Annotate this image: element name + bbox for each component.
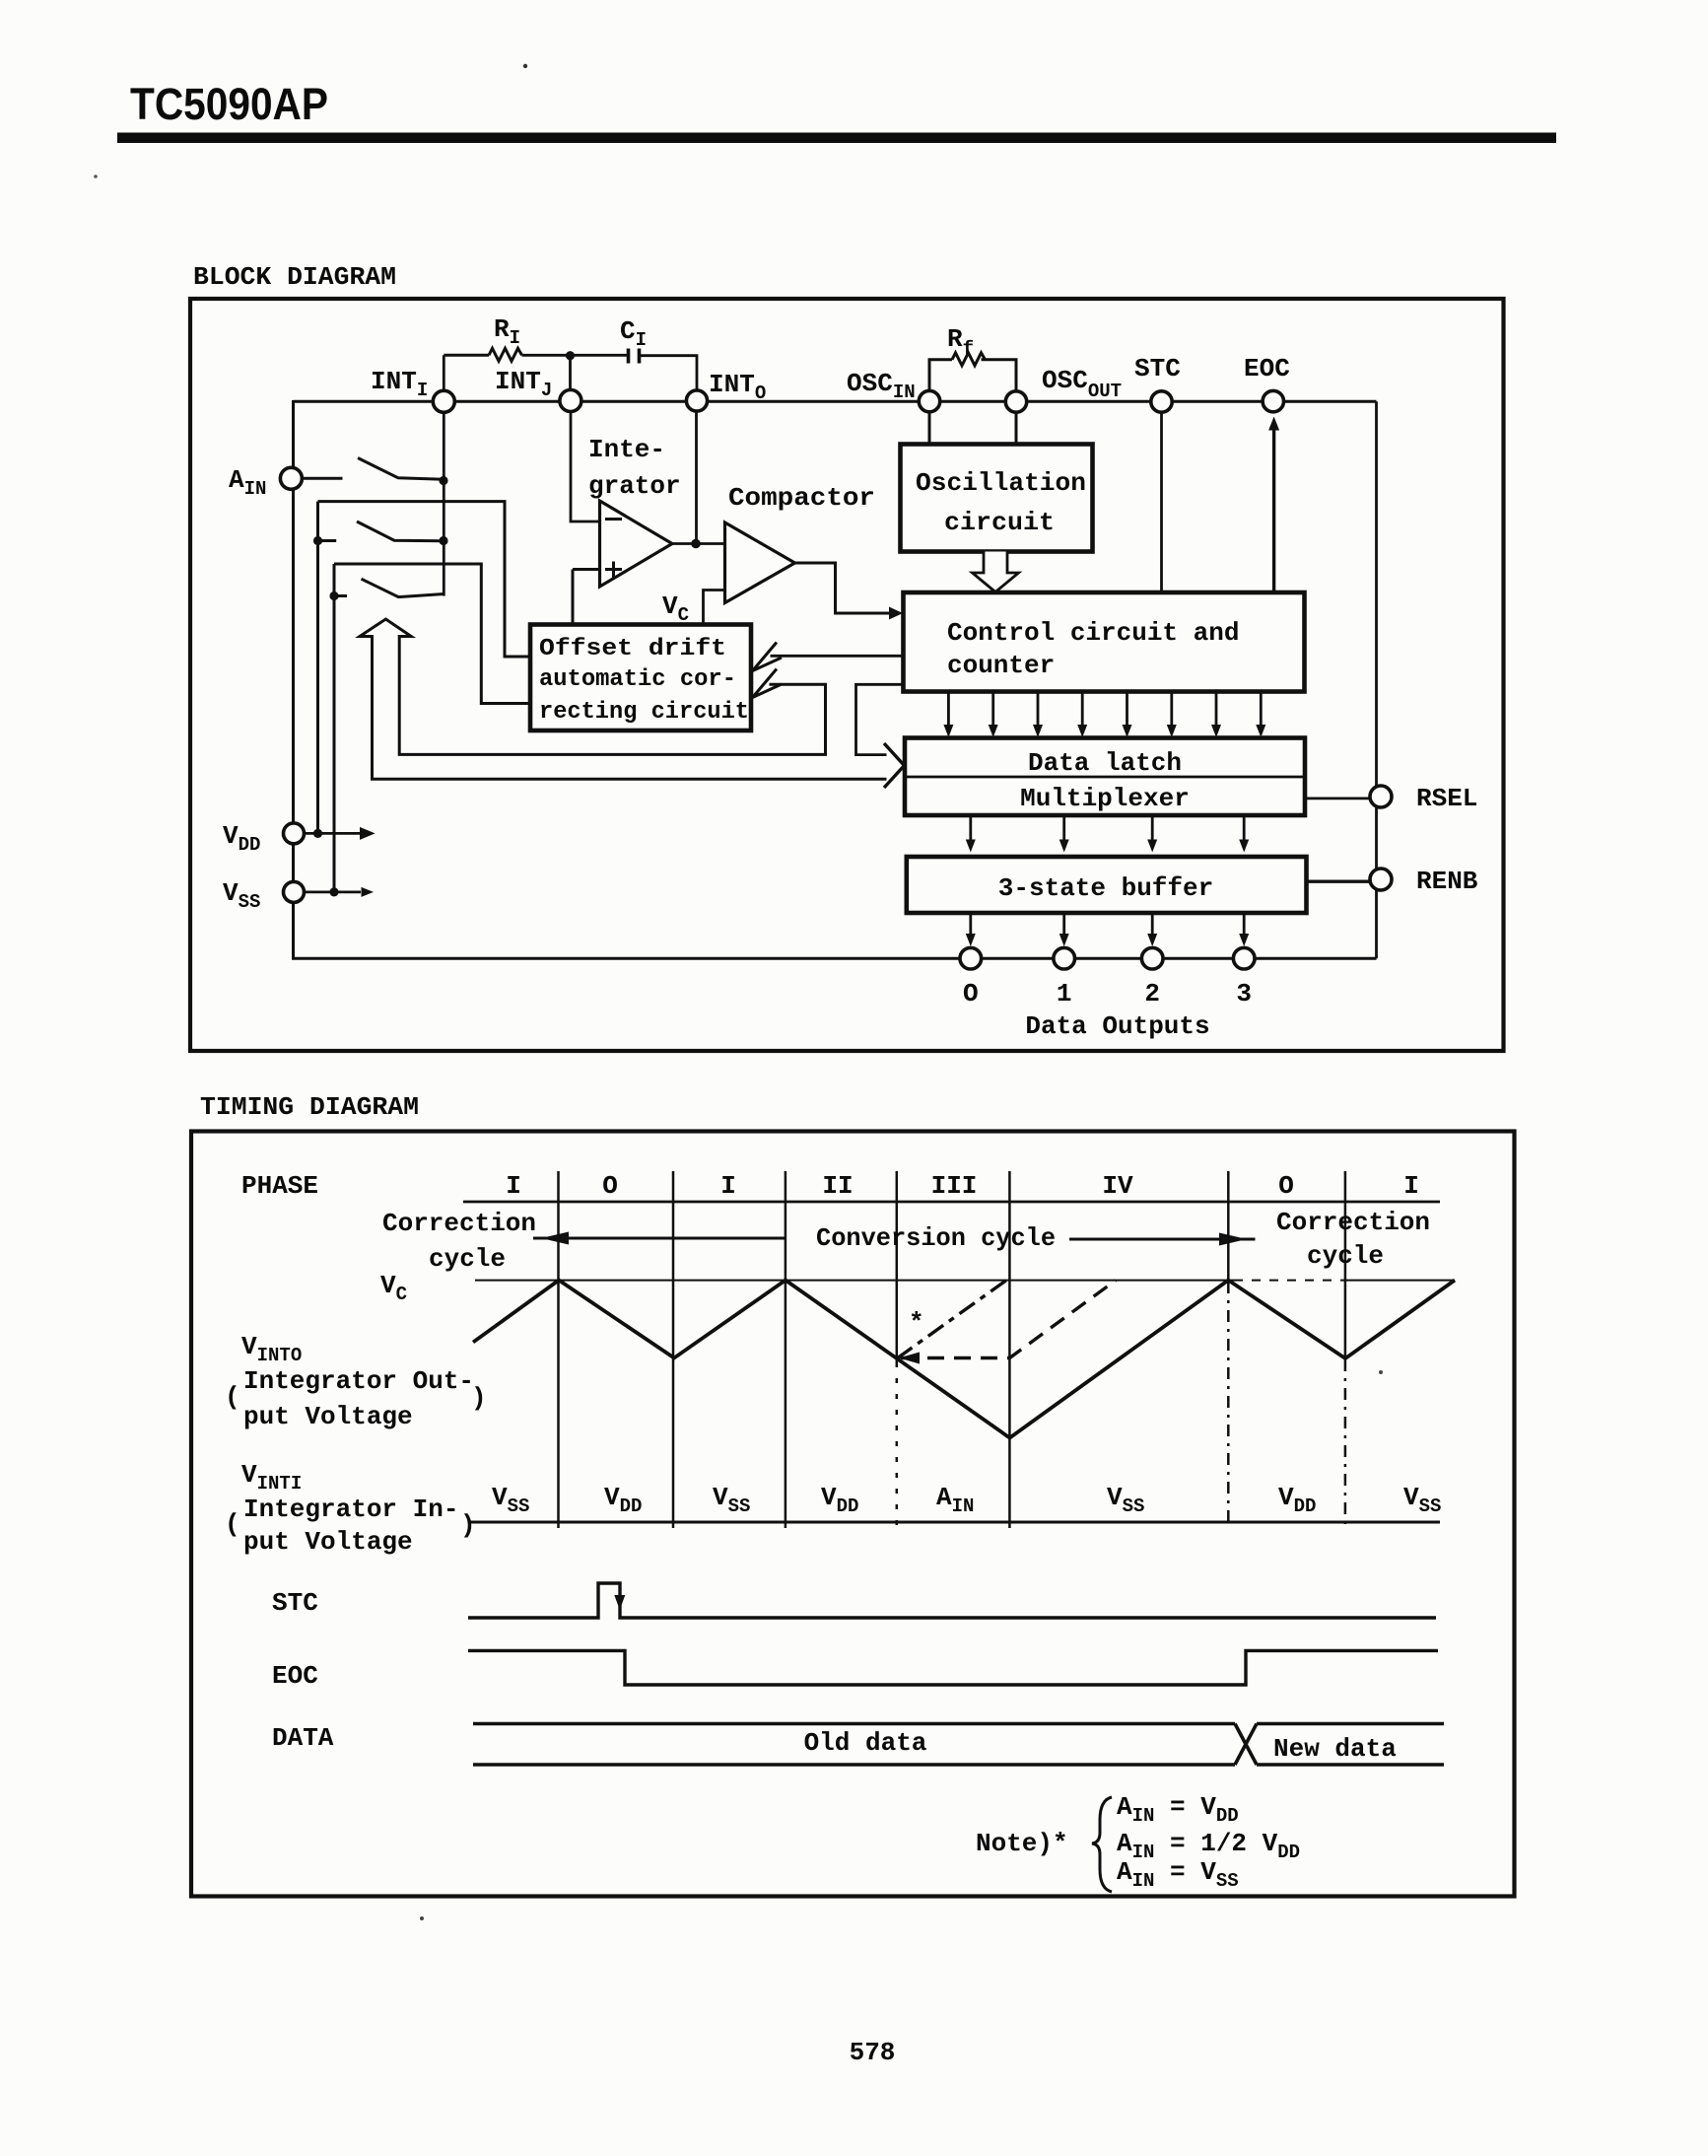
svg-text:VDD: VDD [821, 1483, 858, 1517]
svg-text:EOC: EOC [272, 1661, 318, 1691]
svg-text:grator: grator [588, 471, 681, 501]
svg-text:III: III [931, 1171, 978, 1201]
svg-text:Integrator Out-: Integrator Out- [243, 1366, 474, 1396]
svg-text:OSCOUT: OSCOUT [1042, 366, 1122, 402]
svg-text:Old data: Old data [804, 1728, 927, 1758]
svg-text:VINTI: VINTI [241, 1460, 302, 1495]
svg-text:(: ( [225, 1509, 240, 1539]
svg-text:RI: RI [494, 314, 520, 349]
svg-text:578: 578 [850, 2038, 896, 2067]
svg-text:(: ( [225, 1382, 240, 1412]
svg-text:AIN: AIN [936, 1483, 974, 1517]
svg-text:I: I [1403, 1171, 1419, 1201]
svg-text:VSS: VSS [1403, 1483, 1441, 1517]
svg-text:PHASE: PHASE [241, 1171, 318, 1201]
svg-text:O: O [1278, 1171, 1294, 1201]
svg-text:INTO: INTO [709, 370, 766, 404]
svg-text:CI: CI [620, 316, 647, 351]
svg-text:RENB: RENB [1416, 867, 1478, 896]
svg-text:Conversion cycle: Conversion cycle [816, 1223, 1056, 1253]
svg-text:VDD: VDD [223, 821, 260, 856]
svg-text:Integrator In-: Integrator In- [243, 1495, 458, 1524]
svg-text:Data latch: Data latch [1028, 748, 1182, 778]
svg-text:Offset drift: Offset drift [539, 636, 726, 662]
svg-text:VSS: VSS [1107, 1483, 1144, 1517]
svg-text:VSS: VSS [223, 878, 260, 913]
svg-text:3: 3 [1236, 979, 1252, 1008]
svg-text:VDD: VDD [604, 1483, 642, 1517]
svg-text:Oscillation: Oscillation [916, 468, 1086, 498]
svg-text:BLOCK DIAGRAM: BLOCK DIAGRAM [193, 262, 396, 292]
svg-text:O: O [602, 1171, 618, 1201]
svg-text:VC: VC [662, 591, 689, 626]
svg-text:Note)*: Note)* [976, 1829, 1068, 1858]
svg-text:cycle: cycle [1307, 1241, 1384, 1271]
svg-text:TIMING DIAGRAM: TIMING DIAGRAM [200, 1092, 419, 1122]
svg-text:recting circuit: recting circuit [539, 699, 749, 726]
svg-text:counter: counter [947, 651, 1055, 680]
svg-text:Compactor: Compactor [728, 483, 875, 513]
svg-text:INTI: INTI [371, 367, 428, 401]
svg-text:DATA: DATA [272, 1723, 334, 1753]
svg-text:RSEL: RSEL [1416, 784, 1477, 813]
svg-text:STC: STC [272, 1588, 318, 1618]
svg-text:VDD: VDD [1278, 1483, 1316, 1517]
svg-text:IV: IV [1102, 1171, 1133, 1201]
svg-text:cycle: cycle [429, 1244, 506, 1274]
svg-text:Multiplexer: Multiplexer [1020, 784, 1190, 813]
svg-text:circuit: circuit [944, 508, 1055, 537]
svg-text:Inte-: Inte- [588, 435, 665, 464]
svg-text:INTJ: INTJ [495, 367, 552, 401]
svg-text:): ) [471, 1383, 487, 1413]
svg-text:Control circuit and: Control circuit and [947, 618, 1239, 648]
svg-text:STC: STC [1134, 354, 1181, 383]
svg-text:1: 1 [1057, 979, 1072, 1008]
svg-text:I: I [506, 1171, 521, 1201]
svg-text:*: * [909, 1308, 924, 1338]
svg-text:VSS: VSS [713, 1483, 750, 1517]
svg-text:put Voltage: put Voltage [243, 1527, 413, 1557]
svg-text:OSCIN: OSCIN [847, 369, 916, 403]
svg-text:3-state buffer: 3-state buffer [998, 873, 1213, 903]
svg-text:New data: New data [1273, 1734, 1397, 1764]
svg-text:O: O [963, 979, 979, 1008]
svg-text:Rf: Rf [947, 324, 974, 360]
svg-text:Data Outputs: Data Outputs [1025, 1011, 1209, 1041]
svg-text:AIN: AIN [229, 465, 266, 500]
svg-text:TC5090AP: TC5090AP [130, 79, 328, 129]
svg-text:Correction: Correction [382, 1209, 536, 1238]
svg-text:2: 2 [1144, 979, 1160, 1008]
svg-text:AIN = VDD: AIN = VDD [1117, 1792, 1239, 1827]
svg-text:EOC: EOC [1244, 354, 1290, 383]
svg-text:VINTO: VINTO [241, 1332, 302, 1366]
svg-text:VC: VC [380, 1271, 407, 1305]
svg-text:Correction: Correction [1276, 1208, 1430, 1237]
svg-text:put Voltage: put Voltage [243, 1402, 413, 1431]
svg-text:): ) [460, 1510, 476, 1540]
svg-text:VSS: VSS [492, 1483, 529, 1517]
svg-text:automatic cor-: automatic cor- [539, 666, 736, 693]
svg-text:I: I [720, 1171, 736, 1201]
svg-text:II: II [822, 1171, 853, 1201]
